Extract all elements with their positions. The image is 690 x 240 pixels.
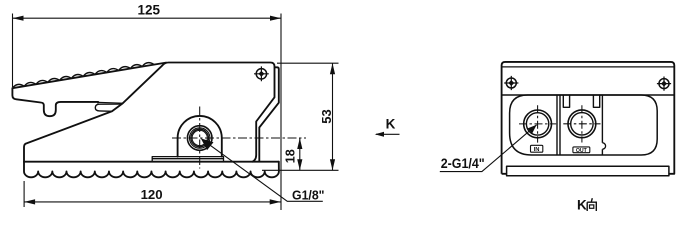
K port centerlines xyxy=(519,105,601,142)
K side semicircle notch xyxy=(602,143,605,149)
K block dividers xyxy=(557,95,602,155)
port centerlines (side view) xyxy=(172,107,306,169)
body outline (side view) xyxy=(24,63,275,162)
pedal rear lip wedge shading xyxy=(98,102,123,104)
pedal plate (side view) xyxy=(12,88,98,116)
pedal rear lip wedge xyxy=(98,102,123,104)
K top notches xyxy=(563,95,599,107)
svg-text:G1/8": G1/8" xyxy=(292,187,325,202)
rubber base strip with wavy bottom (side view) xyxy=(24,162,279,178)
label IN xyxy=(531,145,543,153)
label OUT xyxy=(573,147,590,154)
svg-text:125: 125 xyxy=(138,3,161,18)
port G1/8 circles (side view) xyxy=(187,126,212,151)
K port IN circles xyxy=(524,110,552,138)
svg-text:120: 120 xyxy=(141,187,163,202)
svg-text:53: 53 xyxy=(319,109,334,123)
view arrow K xyxy=(376,133,400,135)
pedal rear hook notch xyxy=(95,104,112,111)
K inner panel xyxy=(502,94,675,96)
dimension 18 xyxy=(299,138,301,170)
leader G1/8 xyxy=(203,140,323,202)
back plate (side view) xyxy=(252,67,278,161)
K body top chamfer line xyxy=(502,66,675,68)
glyph 向 drawn as strokes xyxy=(587,198,596,211)
svg-text:2-G1/4": 2-G1/4" xyxy=(441,156,485,171)
svg-text:K: K xyxy=(386,117,396,132)
K body outline xyxy=(502,62,675,174)
pedal top scalloped edge xyxy=(12,63,166,89)
port boss arch (side view) xyxy=(178,116,222,157)
dimension 120 xyxy=(24,181,281,207)
dimension 53 xyxy=(262,63,339,170)
screw left (K view) xyxy=(504,76,518,90)
svg-text:OUT: OUT xyxy=(576,148,588,154)
boss plinth xyxy=(152,157,223,162)
dimension 125 xyxy=(13,14,282,211)
K port OUT circles xyxy=(568,110,596,138)
svg-text:K: K xyxy=(577,198,587,213)
screw (side view) xyxy=(254,66,269,81)
K base plate xyxy=(507,166,669,176)
svg-text:18: 18 xyxy=(284,149,298,163)
leader 2-G1/4" xyxy=(440,125,537,172)
svg-text:IN: IN xyxy=(534,147,540,153)
screw right (K view) xyxy=(657,77,671,91)
